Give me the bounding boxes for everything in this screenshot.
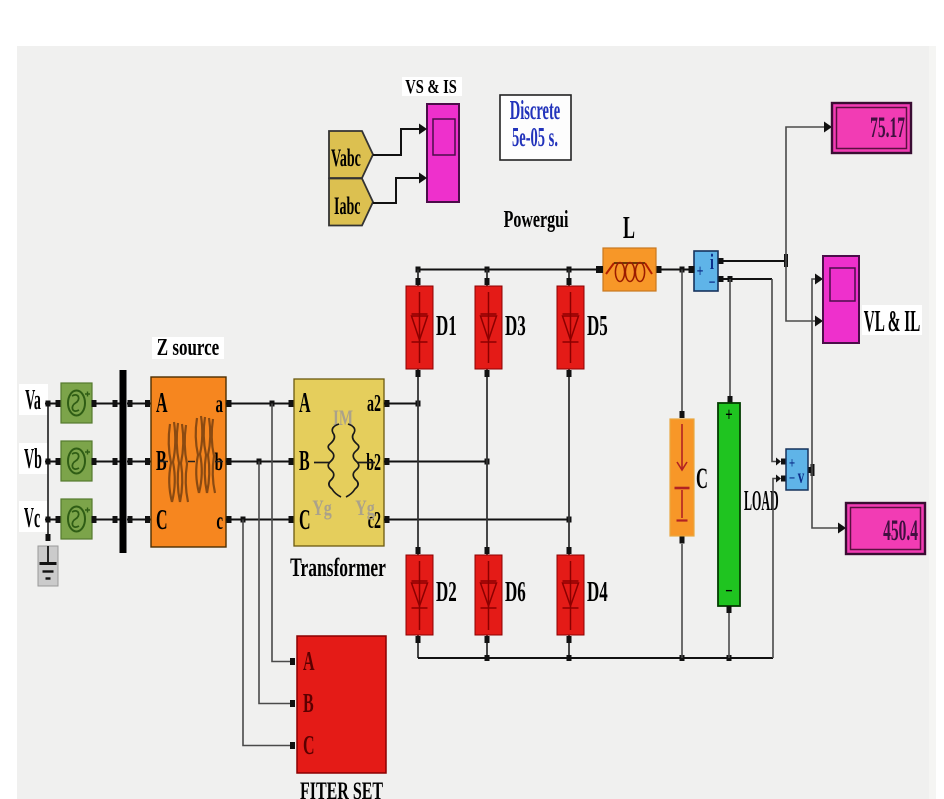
inductor L — [603, 248, 656, 291]
svg-text:VL & IL: VL & IL — [864, 306, 921, 339]
svg-text:Iabc: Iabc — [334, 193, 360, 220]
wire Va label to source 1 — [45, 400, 61, 407]
svg-text:A: A — [299, 387, 311, 419]
pin ammeter i out — [719, 258, 724, 264]
svg-text:D3: D3 — [505, 311, 526, 343]
svg-text:D5: D5 — [587, 311, 608, 343]
svg-text:Vabc: Vabc — [331, 145, 361, 172]
pin ammeter left — [690, 266, 695, 273]
junction node b tap — [257, 459, 262, 465]
pin C bottom — [680, 537, 685, 544]
junction DC plus node — [680, 267, 685, 273]
diode D1 — [406, 286, 433, 369]
svg-text:c: c — [216, 506, 223, 535]
wire Vb label to source 2 — [45, 458, 61, 465]
svg-text:VS & IS: VS & IS — [405, 75, 457, 98]
wire L to ammeter — [661, 266, 694, 273]
wire Vc label to source 3 — [45, 516, 61, 523]
ammeter i block — [694, 250, 718, 293]
pin voltmeter out — [809, 467, 814, 473]
svg-text:Yg: Yg — [355, 497, 375, 521]
AC voltage source Va — [61, 383, 92, 423]
wire leg3 vertical — [567, 270, 572, 659]
pin L right — [657, 266, 662, 273]
svg-text:IM: IM — [333, 406, 353, 431]
Z source block — [151, 377, 226, 547]
wire source1 to busbar — [92, 400, 120, 407]
svg-text:−: − — [725, 579, 732, 601]
wire load node to voltmeter plus — [772, 279, 786, 466]
wire signal up to display 75.17 — [786, 122, 832, 262]
pin ammeter minus — [719, 276, 724, 282]
svg-text:D6: D6 — [505, 577, 526, 609]
node Vb label — [19, 443, 48, 475]
svg-text:i: i — [710, 250, 714, 275]
wire b2 to rectifier leg 2 — [384, 458, 487, 465]
goto tag Vabc — [329, 131, 373, 178]
svg-text:a2: a2 — [367, 391, 381, 417]
powergui block — [500, 94, 571, 160]
node Vc label — [19, 501, 48, 533]
svg-text:D4: D4 — [587, 577, 608, 609]
svg-text:C: C — [696, 463, 708, 495]
Z source inductor icon — [160, 416, 223, 502]
wire voltage signal down to display 450.4 — [812, 470, 846, 534]
wire a2 to rectifier leg 1 — [384, 400, 418, 407]
svg-text:450.4: 450.4 — [883, 515, 918, 548]
transformer winding icon — [314, 424, 375, 497]
svg-text:a: a — [216, 389, 224, 418]
svg-text:D2: D2 — [436, 577, 457, 609]
scope VL & IL — [823, 256, 859, 343]
svg-text:A: A — [303, 646, 315, 676]
wire voltage signal up to scope VL input — [812, 274, 823, 471]
svg-text:B: B — [303, 688, 314, 718]
wire leg1 vertical — [416, 270, 421, 659]
wire busbar to Z source C — [127, 516, 151, 523]
wire leg2 vertical — [485, 270, 490, 659]
wire LOAD bottom to negative bus — [728, 613, 730, 658]
wire busbar to Z source A — [127, 400, 151, 407]
junction node c tap — [241, 517, 246, 523]
wire common neutral down to ground — [46, 401, 51, 542]
wire busbar to Z source B — [127, 458, 151, 465]
svg-text:−: − — [789, 469, 795, 486]
svg-text:C: C — [299, 504, 311, 536]
junction leg2 b2 — [485, 459, 490, 465]
junction leg3 c2 — [567, 517, 572, 523]
busbar — [120, 370, 127, 553]
svg-text:Vc: Vc — [24, 502, 40, 534]
wire Iabc to scope input 2 — [373, 173, 427, 204]
wire positive DC bus — [416, 266, 602, 273]
voltmeter v block — [786, 449, 808, 490]
ground — [38, 546, 58, 586]
goto tag Iabc — [329, 179, 373, 226]
Z source block label — [152, 333, 224, 361]
wire source2 to busbar — [92, 458, 120, 465]
diode D6 — [475, 555, 502, 635]
svg-text:C: C — [156, 504, 168, 536]
svg-text:Powergui: Powergui — [504, 207, 569, 233]
scope VS & IS — [427, 104, 459, 202]
LOAD block — [718, 403, 740, 606]
junction leg1 a2 — [416, 401, 421, 407]
svg-text:Z source: Z source — [157, 333, 219, 361]
wire load node down to LOAD top — [728, 279, 733, 403]
svg-text:+: + — [697, 262, 704, 282]
wire node a to FITER SET A — [272, 404, 295, 666]
svg-text:Yg: Yg — [312, 497, 332, 521]
svg-text:Transformer: Transformer — [290, 552, 386, 581]
display 450.4 — [846, 503, 925, 554]
svg-text:D1: D1 — [436, 311, 457, 343]
svg-text:75.17: 75.17 — [870, 112, 905, 145]
wire source3 to busbar — [92, 516, 120, 523]
wire Vabc to scope input 1 — [373, 124, 427, 156]
svg-text:B: B — [299, 445, 310, 477]
svg-text:v: v — [798, 465, 805, 487]
node Va label — [19, 384, 48, 416]
AC voltage source Vc — [61, 499, 92, 539]
svg-text:Vb: Vb — [24, 443, 42, 475]
wire ammeter minus to load node — [723, 278, 772, 280]
svg-text:L: L — [623, 210, 635, 246]
wire signal down to scope IL input — [786, 261, 823, 327]
pin L left — [598, 266, 603, 273]
wire Z b to transformer B — [226, 458, 294, 465]
AC voltage source Vb — [61, 441, 92, 481]
diode D5 — [557, 286, 584, 369]
wire ammeter signal out — [723, 254, 788, 267]
diode D4 — [557, 555, 584, 635]
capacitor C — [670, 419, 694, 536]
svg-text:A: A — [156, 387, 168, 419]
svg-text:Va: Va — [25, 384, 41, 416]
FITER SET block — [297, 636, 386, 773]
wire DC plus down to capacitor C — [680, 270, 685, 419]
wire C bottom to negative bus — [681, 544, 683, 658]
diode D2 — [406, 555, 433, 635]
wire node c to FITER SET C — [243, 520, 295, 750]
junction node a tap — [270, 401, 275, 407]
scope VS & IS label — [402, 75, 462, 98]
wire Z a to transformer A — [226, 400, 294, 407]
pin LOAD bottom — [727, 606, 732, 613]
transformer T1 — [294, 379, 384, 546]
wire Z c to transformer C — [226, 516, 294, 523]
wire negative bus to voltmeter minus — [773, 475, 786, 659]
scope VL & IL label — [862, 305, 922, 339]
svg-text:5e-05 s.: 5e-05 s. — [512, 121, 558, 152]
wire c2 to rectifier leg 3 — [384, 516, 569, 523]
diode D3 — [475, 286, 502, 369]
wire node b to FITER SET B — [259, 462, 295, 708]
junction voltmeter signal node — [811, 464, 815, 476]
svg-text:FITER SET: FITER SET — [300, 776, 383, 799]
svg-text:−: − — [709, 273, 716, 293]
svg-text:+: + — [725, 403, 732, 425]
display 75.17 — [832, 103, 911, 153]
svg-text:C: C — [303, 730, 315, 760]
junction load node — [728, 276, 733, 282]
wire negative DC bus — [418, 655, 773, 661]
